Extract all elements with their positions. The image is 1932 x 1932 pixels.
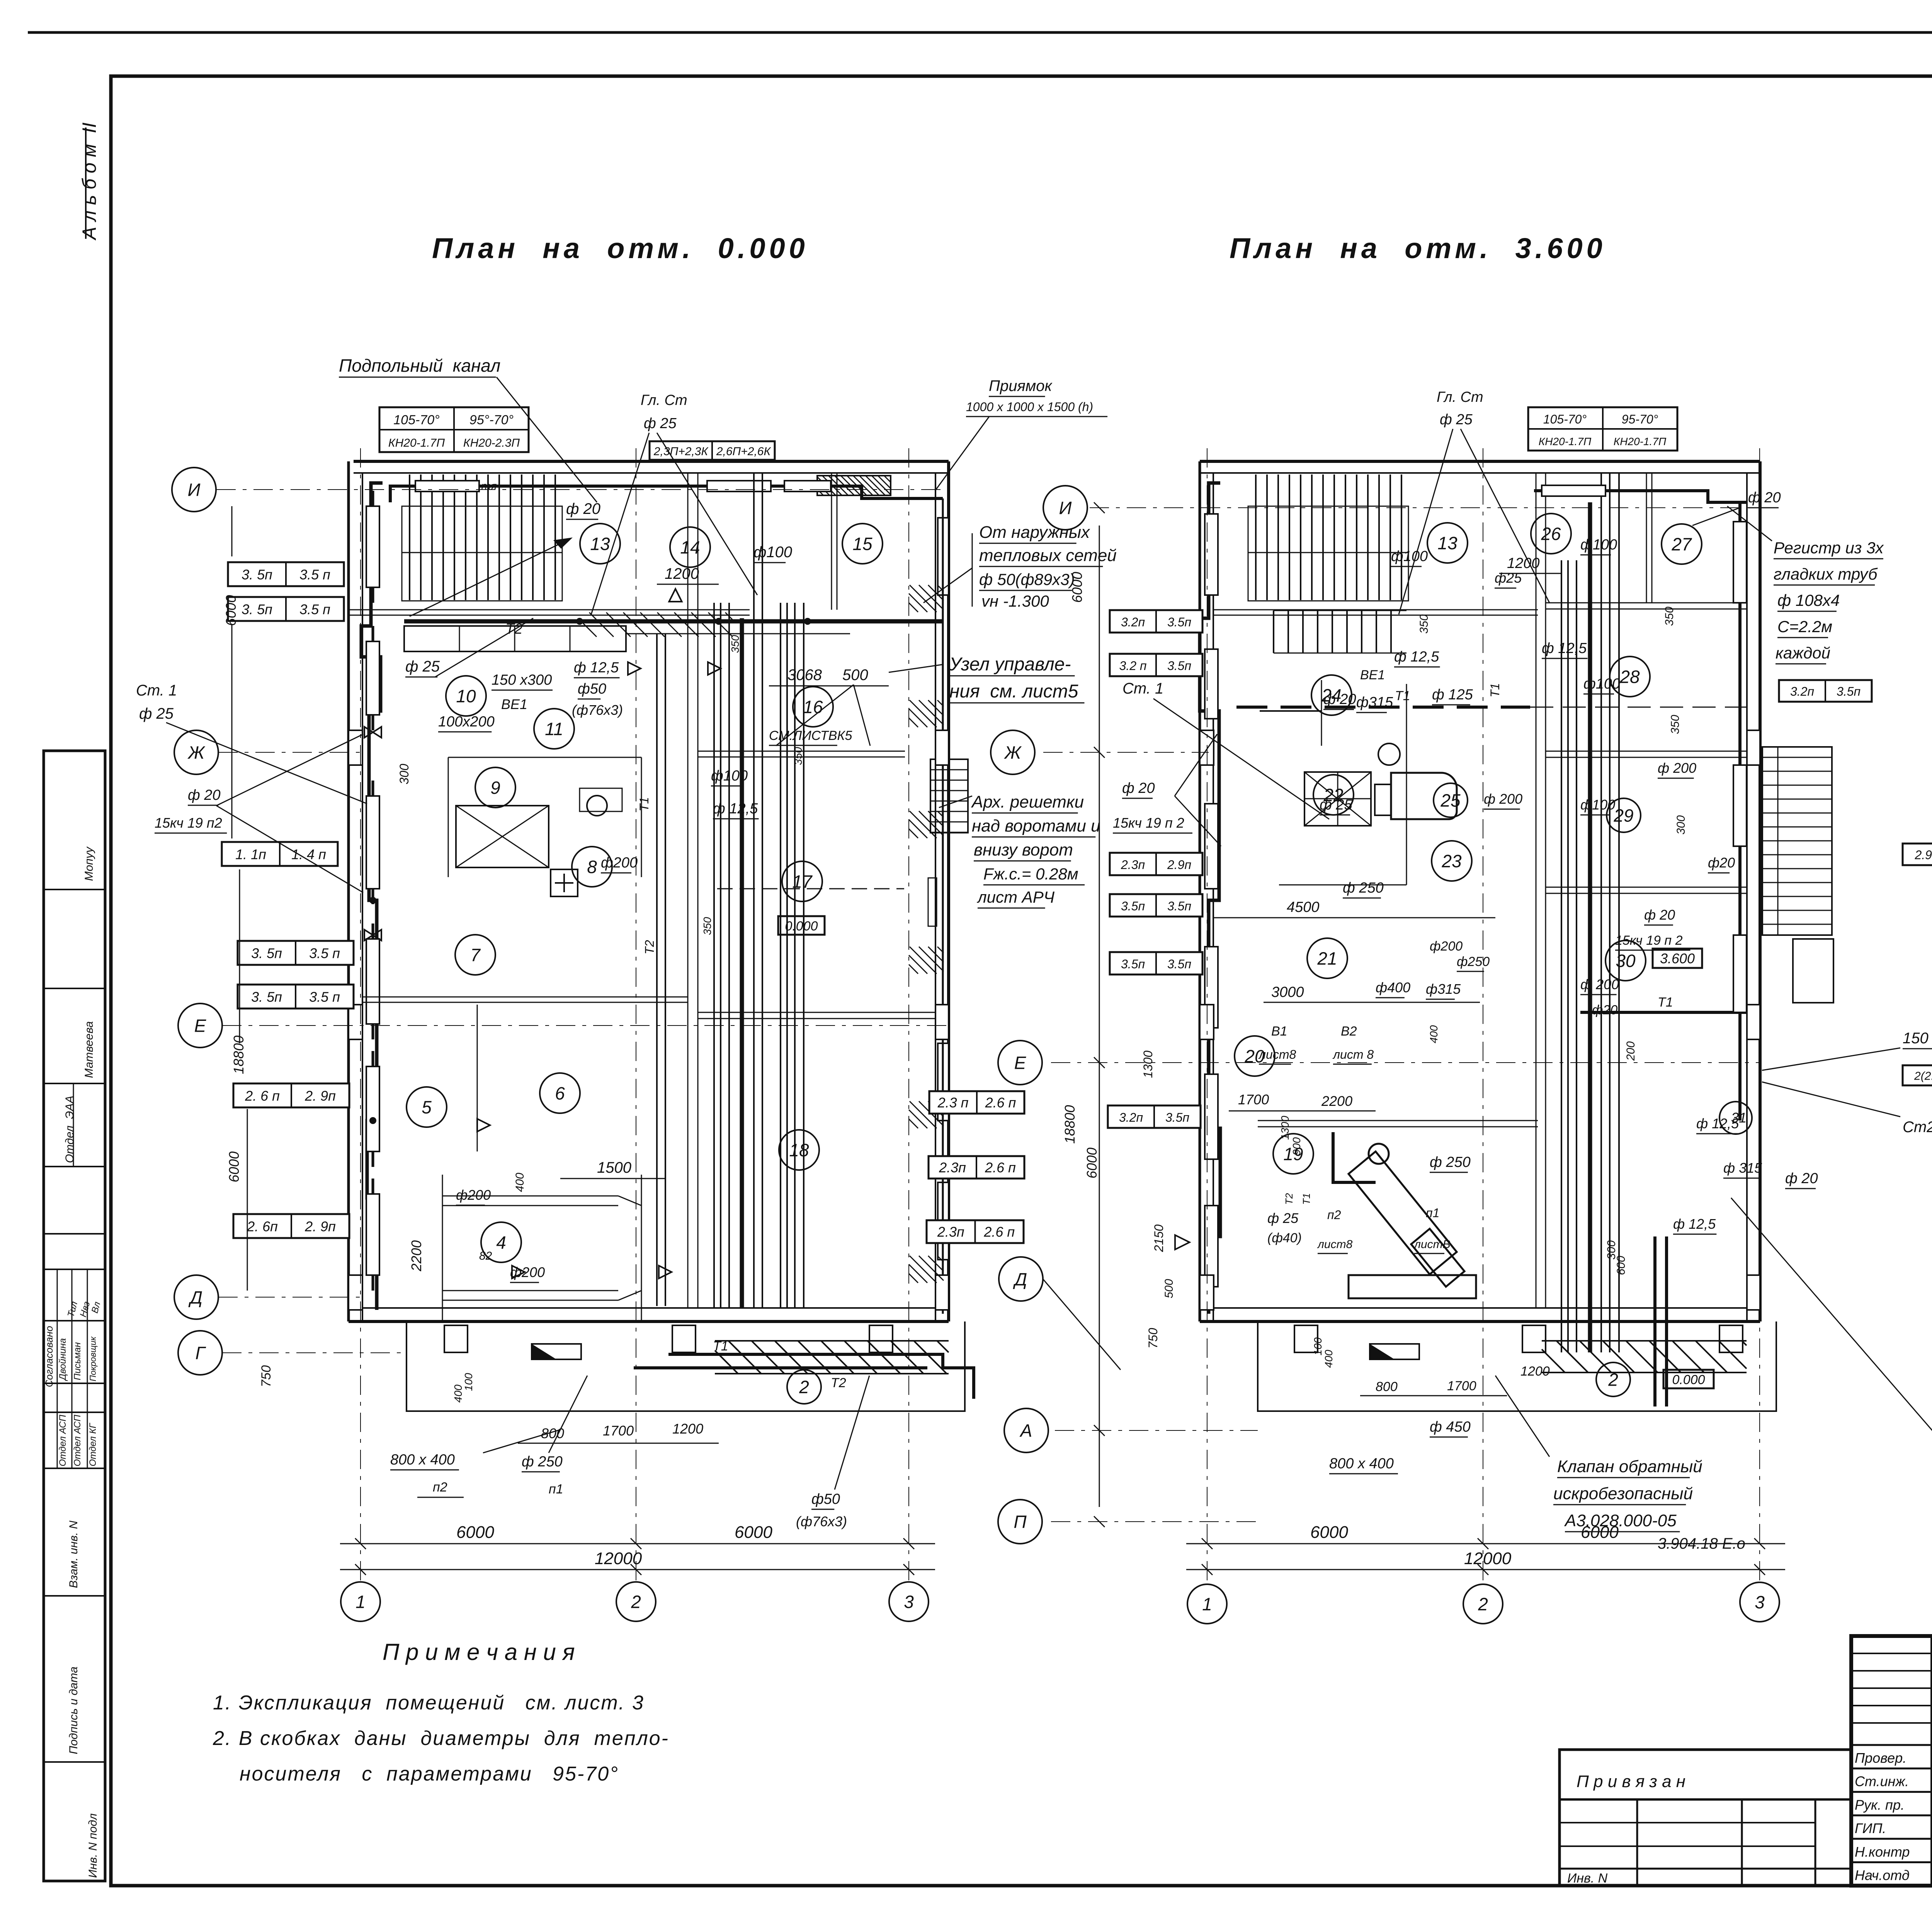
svg-text:ф200: ф200 bbox=[601, 855, 638, 871]
svg-text:Провер.: Провер. bbox=[1855, 1750, 1906, 1766]
svg-text:ф200: ф200 bbox=[456, 1187, 491, 1203]
svg-text:ВЕ1: ВЕ1 bbox=[501, 696, 527, 712]
svg-text:3068: 3068 bbox=[787, 667, 822, 684]
plan1 room circle 5 bbox=[406, 1087, 447, 1127]
plan2 left wall radiators bbox=[1205, 514, 1218, 595]
svg-text:Отдел АСП: Отдел АСП bbox=[58, 1415, 68, 1466]
plan1 valve bowtie bbox=[364, 727, 381, 738]
plan1 plus box bbox=[551, 869, 578, 896]
svg-text:400: 400 bbox=[514, 1173, 526, 1192]
svg-text:Fж.с.= 0.28м: Fж.с.= 0.28м bbox=[983, 865, 1078, 883]
svg-text:800: 800 bbox=[541, 1425, 564, 1441]
svg-text:Арх. решетки: Арх. решетки bbox=[971, 793, 1084, 811]
plan2 room circle 26 bbox=[1531, 514, 1571, 554]
plan2 heavy T1 corridor bbox=[1236, 706, 1530, 709]
svg-text:3.5п: 3.5п bbox=[1167, 659, 1191, 673]
svg-text:лист АРЧ: лист АРЧ bbox=[976, 888, 1055, 906]
plan2 porch heavy risers bbox=[1653, 1236, 1656, 1406]
plan1 column axis 1 bbox=[360, 448, 361, 1580]
svg-text:п1: п1 bbox=[549, 1482, 563, 1497]
svg-text:Ст. 1: Ст. 1 bbox=[1122, 680, 1163, 697]
plan1 ramp hatch bbox=[714, 1373, 716, 1374]
svg-text:3.5п: 3.5п bbox=[1121, 957, 1145, 971]
plan1 heavy pipes T1 T2 in channel bbox=[668, 1354, 974, 1399]
svg-text:ф 12,5: ф 12,5 bbox=[713, 801, 758, 817]
plan2 right dim boxes bbox=[1779, 680, 1872, 702]
svg-text:7: 7 bbox=[470, 945, 481, 965]
svg-text:350: 350 bbox=[1663, 607, 1676, 626]
svg-text:6000: 6000 bbox=[735, 1523, 772, 1542]
svg-text:ф 108х4: ф 108х4 bbox=[1777, 591, 1840, 609]
plan2 paired boxes bbox=[1903, 1065, 1932, 1085]
plan1 left wall heating pipe meander bbox=[361, 483, 383, 1310]
svg-text:Нач.отд: Нач.отд bbox=[1855, 1867, 1910, 1883]
plan1 room circle 18 bbox=[779, 1130, 819, 1170]
svg-text:КН20-2.3П: КН20-2.3П bbox=[463, 437, 520, 449]
svg-text:15кч 19 п 2: 15кч 19 п 2 bbox=[1113, 815, 1184, 831]
plan1 column axis 2 bbox=[636, 448, 636, 1580]
svg-text:ф100: ф100 bbox=[1580, 797, 1615, 813]
svg-text:ф 25: ф 25 bbox=[1440, 412, 1473, 428]
plan2 room circle 19 bbox=[1273, 1134, 1313, 1174]
svg-text:ф100: ф100 bbox=[711, 768, 748, 784]
plan2 right annex stair bbox=[1762, 747, 1832, 935]
plan2 room circle 30 bbox=[1605, 940, 1646, 981]
plan2 porch columns bbox=[1294, 1325, 1318, 1352]
plan1 room circle 14 bbox=[670, 527, 710, 567]
svg-text:3.5п: 3.5п bbox=[1837, 684, 1861, 698]
plan2 top wall bbox=[1200, 460, 1760, 463]
svg-text:(ф76х3): (ф76х3) bbox=[572, 702, 623, 718]
svg-text:27: 27 bbox=[1671, 534, 1692, 554]
svg-text:носителя с параметрами 95: носителя с параметрами 95-70° bbox=[240, 1763, 619, 1785]
plan2 level mark 3.600 bbox=[1653, 949, 1702, 968]
plan2 wall rooms26-27 bbox=[1646, 473, 1647, 603]
svg-text:лист8: лист8 bbox=[1258, 1048, 1296, 1061]
svg-text:95°-70°: 95°-70° bbox=[469, 413, 514, 427]
svg-text:ф20: ф20 bbox=[1708, 855, 1735, 871]
plan2 room22 crossed equipment bbox=[1304, 772, 1371, 826]
svg-text:2. В скобках даны диаметры: 2. В скобках даны диаметры для тепло- bbox=[213, 1727, 669, 1750]
svg-text:6: 6 bbox=[555, 1083, 565, 1104]
plan2 central duct strip bbox=[1561, 560, 1562, 1352]
svg-text:2200: 2200 bbox=[408, 1240, 424, 1272]
plan1 row axis Д bbox=[218, 1297, 363, 1298]
svg-text:ф 12,5: ф 12,5 bbox=[1542, 640, 1587, 656]
svg-text:Д: Д bbox=[1013, 1269, 1027, 1289]
plan1 room4 duct channels bbox=[442, 1196, 618, 1197]
plan1 heating main T2 bbox=[404, 619, 943, 624]
svg-text:ф 25: ф 25 bbox=[139, 705, 174, 722]
svg-text:Клапан обратный: Клапан обратный bbox=[1557, 1457, 1702, 1476]
svg-text:Мопуу: Мопуу bbox=[83, 846, 95, 881]
svg-text:КН20-1.7П: КН20-1.7П bbox=[388, 437, 445, 449]
svg-text:Отдел ЭАА: Отдел ЭАА bbox=[63, 1095, 76, 1163]
plan1 grid bubble Г bbox=[178, 1331, 222, 1375]
svg-text:18800: 18800 bbox=[1062, 1105, 1078, 1144]
svg-text:ГИП.: ГИП. bbox=[1855, 1820, 1886, 1836]
svg-text:2: 2 bbox=[799, 1377, 809, 1397]
svg-text:искробезопасный: искробезопасный bbox=[1553, 1484, 1693, 1503]
svg-text:C=2.2м: C=2.2м bbox=[1777, 617, 1832, 636]
svg-text:Т1: Т1 bbox=[637, 797, 651, 811]
svg-text:1: 1 bbox=[1202, 1594, 1212, 1614]
plan2 grid bubble П bbox=[998, 1500, 1042, 1544]
svg-text:(ф40): (ф40) bbox=[1267, 1231, 1302, 1245]
svg-text:10: 10 bbox=[456, 686, 476, 706]
svg-text:Е: Е bbox=[194, 1016, 207, 1036]
plan2 grid bubble Е bbox=[998, 1041, 1042, 1085]
svg-text:2(2.9п: 2(2.9п bbox=[1914, 1070, 1932, 1082]
plan2 room circle 20 bbox=[1235, 1036, 1275, 1076]
svg-text:лист 8: лист 8 bbox=[1332, 1048, 1374, 1061]
binding table frame bbox=[1560, 1750, 1851, 1886]
svg-text:13: 13 bbox=[1437, 533, 1458, 553]
svg-text:ф315: ф315 bbox=[1356, 694, 1393, 711]
svg-text:150 х 250: 150 х 250 bbox=[1903, 1030, 1932, 1047]
plan2 heavy pipe T1 room30 bbox=[1580, 1011, 1747, 1014]
plan2 room circle 22 bbox=[1313, 775, 1354, 815]
plan1 junction dots bbox=[576, 618, 583, 625]
svg-text:1300: 1300 bbox=[1141, 1051, 1155, 1078]
title block outer frame bbox=[1851, 1636, 1932, 1886]
plan2 group bbox=[991, 448, 1833, 1624]
plan1 left wall bbox=[347, 461, 350, 1321]
svg-text:ф 12,5: ф 12,5 bbox=[574, 660, 619, 676]
svg-text:П р и в я з а н: П р и в я з а н bbox=[1577, 1772, 1685, 1791]
svg-text:350: 350 bbox=[1669, 715, 1682, 734]
svg-text:листВ: листВ bbox=[1413, 1238, 1451, 1251]
plan2 bottom grid bubbles bbox=[1187, 1584, 1227, 1624]
svg-text:ф 125: ф 125 bbox=[1432, 687, 1473, 703]
title block row Провер Тарасова bbox=[1851, 1744, 1932, 1746]
plan1 pipe line room17 bbox=[717, 888, 904, 889]
svg-text:П р и м е ч а н и я: П р и м е ч а н и я bbox=[383, 1639, 575, 1665]
svg-text:ф50: ф50 bbox=[811, 1491, 840, 1507]
plan1 wall rooms14-15 bbox=[831, 473, 832, 610]
plan1 left dim boxes bbox=[228, 562, 344, 586]
plan2 room circle 13 bbox=[1427, 523, 1468, 563]
plan2 grid bubble И bbox=[1043, 486, 1087, 530]
svg-text:Регистр из 3х: Регистр из 3х bbox=[1774, 539, 1884, 557]
svg-text:Ж: Ж bbox=[1004, 743, 1022, 763]
svg-text:ф 12,5: ф 12,5 bbox=[1394, 649, 1439, 665]
svg-text:4500: 4500 bbox=[1287, 899, 1320, 915]
plan2 temp table bbox=[1528, 407, 1677, 451]
plan2 room19 fan ducts bbox=[1349, 1144, 1476, 1298]
svg-text:2.6 п: 2.6 п bbox=[983, 1224, 1015, 1240]
svg-text:300: 300 bbox=[397, 764, 411, 784]
svg-text:2. 6 п: 2. 6 п bbox=[245, 1088, 280, 1104]
svg-text:2.6 п: 2.6 п bbox=[985, 1095, 1016, 1111]
svg-text:ф 20: ф 20 bbox=[1644, 907, 1675, 923]
svg-text:2.3п: 2.3п bbox=[1121, 858, 1145, 872]
left stamp column frame bbox=[44, 751, 105, 1881]
svg-text:Т1: Т1 bbox=[1301, 1193, 1312, 1205]
svg-text:29: 29 bbox=[1613, 806, 1633, 826]
svg-text:ф 200: ф 200 bbox=[1658, 760, 1696, 776]
svg-text:Т1: Т1 bbox=[1658, 995, 1673, 1010]
svg-text:ф 20: ф 20 bbox=[1748, 490, 1781, 506]
svg-text:Отдел АСП: Отдел АСП bbox=[72, 1415, 83, 1466]
plan2 porch outline bbox=[1258, 1321, 1776, 1411]
plan1 room circle 11 bbox=[534, 709, 574, 749]
svg-text:3. 5п: 3. 5п bbox=[251, 989, 282, 1005]
plan1 central duct strip bbox=[713, 603, 715, 1308]
svg-text:15: 15 bbox=[852, 534, 872, 554]
svg-text:12000: 12000 bbox=[1464, 1549, 1512, 1568]
svg-text:21: 21 bbox=[1317, 949, 1337, 969]
svg-text:Узел управле-: Узел управле- bbox=[949, 654, 1071, 675]
svg-text:Покровщик: Покровщик bbox=[88, 1336, 98, 1381]
plan1 wall left mid bbox=[362, 997, 688, 998]
plan1 left wall radiators bbox=[366, 506, 379, 587]
svg-text:Т2: Т2 bbox=[643, 940, 656, 954]
plan1 room circle 6 bbox=[540, 1073, 580, 1113]
plan1 flow box bbox=[650, 441, 775, 460]
plan1 room circle 4 bbox=[481, 1222, 521, 1262]
plan2 wall rooms26-28 bbox=[1546, 602, 1747, 604]
plan2 wall pilasters bbox=[1200, 730, 1214, 765]
plan1 group bbox=[172, 448, 974, 1621]
svg-text:500: 500 bbox=[1163, 1279, 1175, 1298]
svg-text:15кч 19 п 2: 15кч 19 п 2 bbox=[1615, 933, 1683, 948]
plan1 porch outline bbox=[406, 1321, 965, 1411]
svg-text:3.5п: 3.5п bbox=[1167, 957, 1191, 971]
svg-text:3. 5п: 3. 5п bbox=[241, 602, 272, 617]
svg-text:16: 16 bbox=[803, 697, 823, 717]
svg-text:Ст. 1: Ст. 1 bbox=[136, 682, 177, 699]
svg-text:В2: В2 bbox=[1341, 1024, 1357, 1039]
svg-text:Т1: Т1 bbox=[713, 1339, 728, 1354]
svg-text:лист8: лист8 bbox=[1317, 1238, 1353, 1251]
svg-text:500: 500 bbox=[842, 667, 868, 684]
svg-text:105-70°: 105-70° bbox=[393, 413, 439, 427]
title block left small rows bbox=[1851, 1653, 1932, 1654]
svg-text:ф 25: ф 25 bbox=[405, 658, 440, 675]
svg-text:Ж: Ж bbox=[187, 743, 206, 763]
plan1 bottom wall bbox=[349, 1307, 949, 1309]
plan1 grid bubble Ж bbox=[174, 730, 218, 774]
plan1 room circle 13 bbox=[580, 524, 620, 564]
svg-text:2: 2 bbox=[631, 1592, 641, 1612]
plan1 top wall bbox=[354, 460, 949, 463]
svg-text:ВЕ1: ВЕ1 bbox=[1360, 668, 1385, 682]
svg-text:15кч 19 п2: 15кч 19 п2 bbox=[155, 815, 222, 831]
plan2 room circle 23 bbox=[1432, 841, 1472, 881]
svg-text:ф 12,5: ф 12,5 bbox=[1673, 1216, 1716, 1232]
svg-text:Инв. N подл: Инв. N подл bbox=[87, 1813, 99, 1878]
plan2 column axes bbox=[1207, 448, 1207, 1580]
svg-text:350: 350 bbox=[792, 747, 804, 765]
title block left columns bbox=[1930, 1636, 1932, 1886]
svg-text:каждой: каждой bbox=[1776, 644, 1830, 662]
plan2 dim chain left bbox=[1099, 526, 1100, 1507]
plan1 top-right grille hatched bbox=[817, 476, 891, 495]
svg-text:18: 18 bbox=[789, 1140, 809, 1160]
plan1 right wall radiators bbox=[938, 518, 949, 595]
svg-text:П: П bbox=[1014, 1512, 1027, 1532]
plan1 flow triangles bbox=[628, 662, 641, 675]
svg-text:750: 750 bbox=[259, 1365, 274, 1387]
svg-text:800 х 400: 800 х 400 bbox=[1329, 1456, 1394, 1472]
svg-text:2. 9п: 2. 9п bbox=[304, 1219, 336, 1235]
binding table grid bbox=[1636, 1799, 1638, 1886]
svg-text:2. 6п: 2. 6п bbox=[247, 1219, 278, 1235]
plan2 row axes bbox=[1090, 507, 1760, 508]
svg-text:3.5 п: 3.5 п bbox=[299, 567, 330, 583]
svg-text:3.2 п: 3.2 п bbox=[1119, 659, 1147, 673]
svg-text:vн -1.300: vн -1.300 bbox=[981, 592, 1049, 610]
plan2 central wall bbox=[1536, 473, 1537, 1308]
plan1 channel hatch under corridor bbox=[579, 636, 580, 638]
plan1 radiator bench below corridor bbox=[404, 626, 626, 651]
plan1 wall rooms17-18 bbox=[698, 1012, 935, 1013]
plan1 room4 walls bbox=[442, 1175, 443, 1321]
svg-text:3.2п: 3.2п bbox=[1121, 615, 1145, 629]
svg-text:Т1: Т1 bbox=[1488, 683, 1502, 697]
svg-text:2. 9п: 2. 9п bbox=[304, 1088, 336, 1104]
plan1 row axis Г bbox=[222, 1352, 406, 1353]
plan1 bottom grid bubbles bbox=[341, 1582, 380, 1621]
plan1 grid bubble И bbox=[172, 468, 216, 512]
svg-text:п2: п2 bbox=[1327, 1208, 1341, 1222]
svg-text:400: 400 bbox=[1323, 1350, 1335, 1368]
plan1 room9 walls bbox=[448, 757, 449, 877]
plan1 temp table bbox=[379, 407, 529, 452]
plan1 row axis И bbox=[216, 489, 949, 490]
svg-text:200: 200 bbox=[1624, 1041, 1637, 1061]
svg-text:Взам. инв. N: Взам. инв. N bbox=[67, 1520, 80, 1588]
svg-text:350: 350 bbox=[729, 635, 741, 653]
mid dim boxes between plans bbox=[929, 1091, 1024, 1114]
svg-text:Д: Д bbox=[188, 1287, 202, 1308]
svg-text:800: 800 bbox=[1376, 1379, 1398, 1394]
plan2 room circle 28 bbox=[1610, 656, 1650, 697]
plan2 stair lower hatch bbox=[1273, 611, 1274, 653]
svg-text:ф250: ф250 bbox=[1457, 954, 1490, 969]
svg-text:Согласовано: Согласовано bbox=[43, 1326, 55, 1387]
svg-text:ф 250: ф 250 bbox=[1343, 880, 1384, 896]
sheet top edge line bbox=[28, 31, 1932, 34]
svg-text:95-70°: 95-70° bbox=[1622, 412, 1658, 426]
plan2 corridor wall bbox=[1213, 609, 1538, 611]
svg-text:0.000: 0.000 bbox=[1672, 1372, 1705, 1387]
svg-text:ф 250: ф 250 bbox=[522, 1454, 563, 1470]
svg-text:КН20-1.7П: КН20-1.7П bbox=[1614, 435, 1667, 447]
svg-text:ф20: ф20 bbox=[1592, 1003, 1617, 1017]
svg-text:Гл. Ст: Гл. Ст bbox=[1437, 389, 1483, 405]
svg-text:3: 3 bbox=[904, 1592, 914, 1612]
svg-text:3.5 п: 3.5 п bbox=[309, 946, 340, 961]
svg-text:ния см. лист5: ния см. лист5 bbox=[949, 681, 1078, 702]
svg-text:2,3П+2,3К: 2,3П+2,3К bbox=[653, 445, 709, 458]
svg-text:31: 31 bbox=[1731, 1110, 1747, 1126]
svg-text:2,6П+2,6К: 2,6П+2,6К bbox=[716, 445, 772, 458]
plan2 room circle 24 bbox=[1311, 675, 1352, 715]
svg-text:Инв. N: Инв. N bbox=[1567, 1871, 1608, 1886]
svg-text:6000: 6000 bbox=[456, 1523, 494, 1542]
svg-text:3: 3 bbox=[1755, 1592, 1765, 1612]
plan2 wall rooms28-29 bbox=[1546, 751, 1747, 752]
svg-text:6000: 6000 bbox=[1084, 1148, 1100, 1179]
svg-text:100х200: 100х200 bbox=[438, 714, 495, 730]
plan1 central wall bbox=[687, 473, 689, 1308]
plan1 stair walk line with arrow bbox=[432, 540, 567, 606]
svg-text:ф100: ф100 bbox=[1583, 676, 1620, 692]
plan1 stair flight bbox=[402, 506, 562, 601]
svg-text:План на отм. 0.000: План на отм. 0.000 bbox=[432, 232, 809, 264]
plan1 porch step block bbox=[532, 1344, 581, 1359]
plan2 room circle 29 bbox=[1607, 798, 1641, 832]
svg-text:Г: Г bbox=[195, 1343, 206, 1363]
plan1 right wall bbox=[947, 461, 950, 1321]
svg-text:6000: 6000 bbox=[1310, 1523, 1348, 1542]
plan1 row axis Е bbox=[222, 1025, 949, 1026]
svg-text:1700: 1700 bbox=[603, 1423, 634, 1439]
plan2 left wall bbox=[1199, 461, 1201, 1321]
svg-text:1700: 1700 bbox=[1238, 1092, 1269, 1107]
svg-text:1. Экспликация помещений см: 1. Экспликация помещений см. лист. 3 bbox=[213, 1692, 645, 1714]
plan2 right annex lower box bbox=[1793, 939, 1833, 1003]
svg-text:18800: 18800 bbox=[231, 1036, 247, 1074]
svg-text:Н.контр: Н.контр bbox=[1855, 1844, 1910, 1860]
plan1 central heavy riser bbox=[740, 618, 744, 1308]
svg-text:ф 315: ф 315 bbox=[1723, 1160, 1762, 1176]
plan2 room19 heavy feed bbox=[1333, 1132, 1376, 1182]
svg-text:ф 20: ф 20 bbox=[1323, 691, 1356, 707]
svg-text:17: 17 bbox=[792, 872, 813, 892]
plan1 partition room5-6 bbox=[477, 1005, 478, 1151]
svg-text:30: 30 bbox=[1616, 951, 1636, 971]
plan1 room circle 8 bbox=[572, 847, 612, 887]
svg-text:Е: Е bbox=[1014, 1053, 1027, 1073]
plan2 bottom wall bbox=[1200, 1307, 1760, 1309]
svg-text:3. 5п: 3. 5п bbox=[241, 567, 272, 583]
plan2 porch hatch bbox=[1541, 1372, 1543, 1373]
svg-text:350: 350 bbox=[1418, 614, 1430, 634]
svg-text:ф 200: ф 200 bbox=[1484, 791, 1522, 807]
plan1 room circle 9 bbox=[475, 767, 515, 808]
svg-text:1000 х 1000 х 1500 (h): 1000 х 1000 х 1500 (h) bbox=[966, 400, 1093, 414]
plan1 room circle 15 bbox=[842, 524, 883, 564]
svg-text:6000: 6000 bbox=[226, 1151, 242, 1182]
plan2 top heating pipe right bbox=[1534, 491, 1747, 502]
svg-text:2: 2 bbox=[1478, 1594, 1488, 1614]
plan2 grid bubble А bbox=[1004, 1408, 1048, 1452]
plan2 bottom dimension lines bbox=[1186, 1543, 1785, 1544]
plan2 partial partitions center bbox=[1260, 710, 1321, 712]
plan1 T1 T2 risers bbox=[656, 634, 658, 1306]
svg-text:тя: тя bbox=[481, 480, 497, 493]
svg-text:23: 23 bbox=[1441, 851, 1462, 871]
svg-text:ф50: ф50 bbox=[578, 681, 606, 697]
svg-text:И: И bbox=[188, 480, 201, 500]
plan2 right wall bbox=[1759, 461, 1762, 1321]
plan2 left flow triangle bbox=[1175, 1235, 1189, 1249]
plan1 grid bubble Д bbox=[174, 1275, 218, 1319]
svg-text:750: 750 bbox=[1146, 1328, 1160, 1349]
svg-text:1200: 1200 bbox=[672, 1421, 703, 1437]
svg-text:Двойнина: Двойнина bbox=[58, 1338, 68, 1381]
svg-text:3.5 п: 3.5 п bbox=[309, 989, 340, 1005]
svg-text:350: 350 bbox=[701, 917, 713, 935]
svg-text:3.5п: 3.5п bbox=[1167, 899, 1191, 913]
plan2 road circle 2 bbox=[1596, 1362, 1630, 1396]
svg-text:ф100: ф100 bbox=[1580, 537, 1617, 553]
svg-text:Подпись и дата: Подпись и дата bbox=[67, 1667, 80, 1754]
svg-text:600: 600 bbox=[1615, 1256, 1628, 1275]
